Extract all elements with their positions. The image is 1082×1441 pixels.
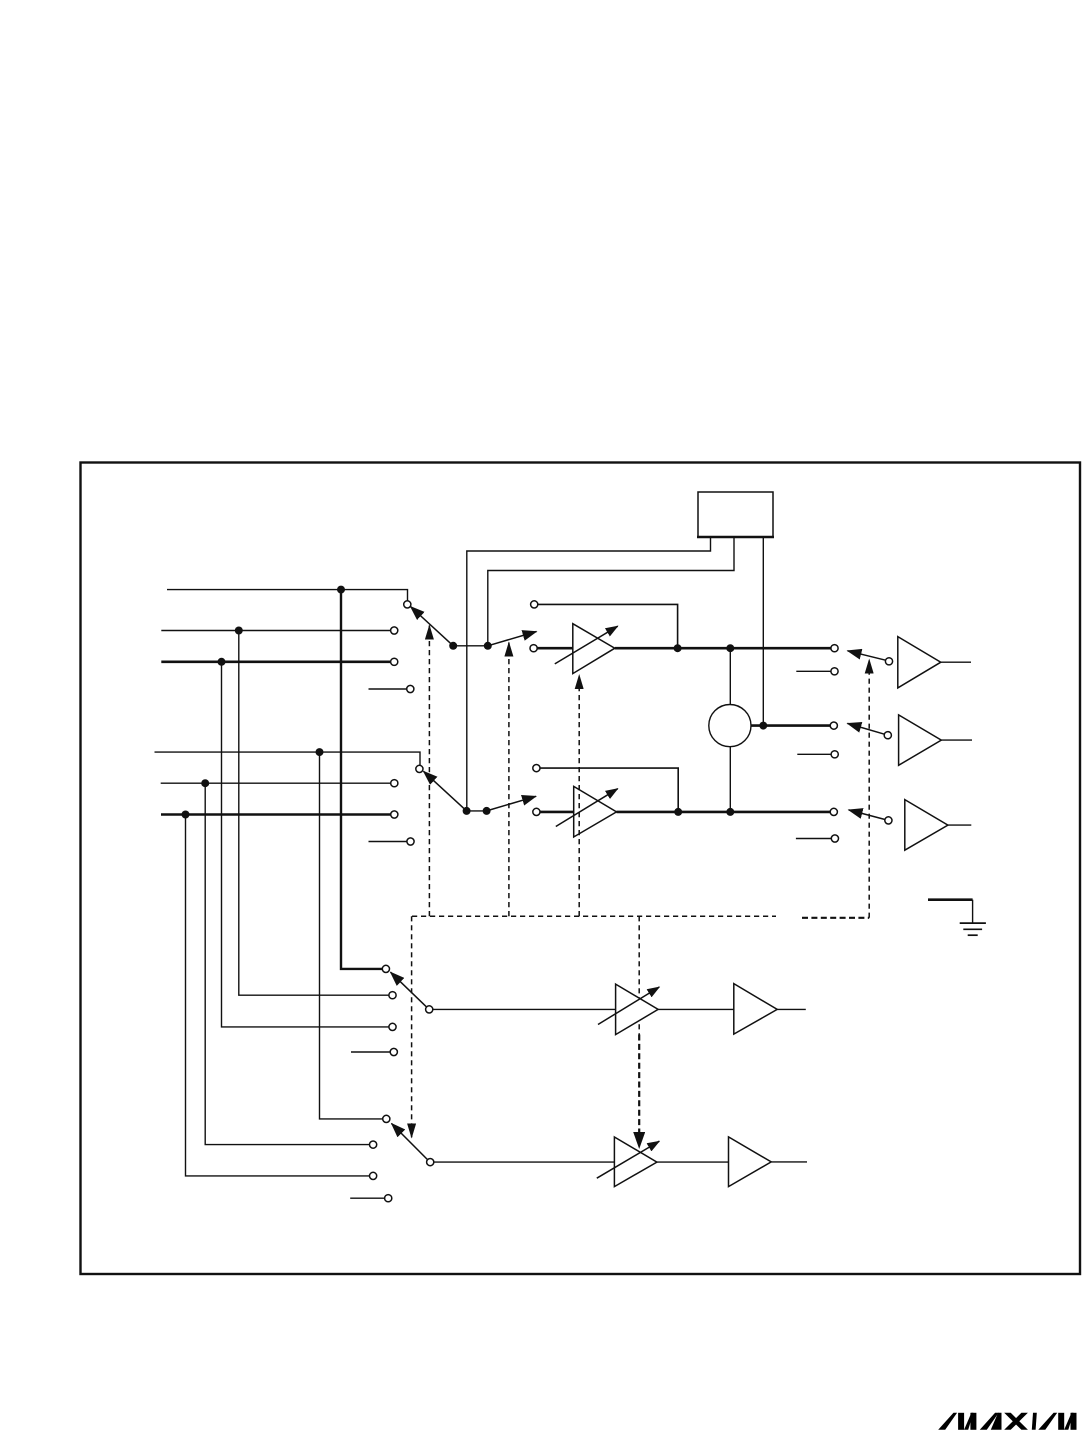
switch S3 contact 2: [389, 992, 396, 999]
switch S6 contact direct: [533, 808, 540, 815]
switch S4 contact 2: [370, 1141, 377, 1148]
switch S8 contact 2 stub: [797, 753, 831, 755]
wire tap B2 vertical: [205, 783, 369, 1144]
amplifier VGA3: [616, 984, 659, 1035]
wire box line L2: [488, 537, 734, 646]
wire dashed VGA gain control: [578, 675, 580, 916]
wire B2 output: [941, 739, 972, 741]
wire VGA4 to B5: [657, 1161, 729, 1163]
wire input A1: [167, 590, 408, 601]
amplifier VGA1: [573, 624, 615, 674]
switch S1 contact 1: [404, 601, 411, 608]
letter I: [1032, 1413, 1037, 1430]
wire box line L3: [762, 537, 764, 726]
summing node circle: [709, 705, 751, 747]
node VGA2 bypass join: [674, 808, 682, 816]
switch S4 contact 3: [370, 1172, 377, 1179]
wire summer output (thick): [751, 724, 830, 727]
switch S3 contact 3: [389, 1023, 396, 1030]
arrow VGA2 gain slash: [556, 789, 618, 827]
wire box line L1: [467, 537, 711, 811]
node S2 pivot: [483, 807, 491, 815]
switch S5 arm (VGA1 bypass select): [488, 632, 537, 646]
letter A: [980, 1413, 1002, 1430]
wire input B3 (thick): [161, 813, 391, 816]
switch S1 contact 3: [391, 658, 398, 665]
wire input A4 stub: [369, 688, 407, 690]
node A2 junction: [235, 627, 243, 635]
wire tap B1 vertical: [320, 752, 383, 1119]
wire input B4 stub: [369, 841, 407, 843]
switch S3 pole circle: [426, 1006, 433, 1013]
switch S3 contact 4 stub: [351, 1051, 390, 1053]
wire B3 output: [948, 824, 971, 826]
wire dashed output switch control: [868, 660, 870, 918]
arrow VGA3 gain slash: [598, 987, 659, 1025]
switch S7 contact from VGA1: [831, 645, 838, 652]
wire input A2: [161, 630, 390, 632]
switch S1 contact 4: [407, 685, 414, 692]
op-amp buffer B3: [905, 800, 948, 851]
wire VGA1 bypass: [538, 604, 678, 648]
switch S4 arm: [392, 1124, 428, 1160]
border frame: [81, 463, 1081, 1275]
switch S7 pole circle: [885, 658, 892, 665]
switch S9 arm: [849, 810, 885, 820]
wire VGA2 output (thick): [617, 811, 831, 814]
wire tap A1 vertical: [341, 590, 382, 969]
switch S3 contact 4: [390, 1048, 397, 1055]
wire S2 pole to pivot: [467, 810, 487, 812]
control box U1: [698, 492, 773, 537]
switch S4 pole circle: [427, 1159, 434, 1166]
node VGA1 bypass join: [674, 644, 682, 652]
switch S2 contact 3: [391, 811, 398, 818]
node B2 junction: [201, 779, 209, 787]
node S2 pole: [463, 807, 471, 815]
node summer bottom join: [726, 808, 734, 816]
wire B5 output: [771, 1161, 807, 1163]
wire B4 output: [777, 1008, 806, 1010]
wire S4 output: [434, 1161, 615, 1163]
switch S8 contact from summer: [830, 722, 837, 729]
wire summer top: [729, 648, 731, 704]
node summer feed: [726, 644, 734, 652]
wire input B2: [161, 782, 391, 784]
node summer output junction: [759, 722, 767, 730]
switch S1 arm: [411, 607, 454, 646]
wire VGA1 output (thick): [615, 647, 831, 650]
wire input B1: [155, 752, 421, 765]
switch S4 contact 4 stub: [350, 1197, 384, 1199]
wire B1 output: [941, 661, 971, 663]
letter M: [1038, 1413, 1076, 1430]
wire dashed bold bus right: [802, 917, 869, 919]
wire tap B3 vertical: [186, 815, 370, 1176]
op-amp buffer B5: [729, 1137, 772, 1187]
wire dashed VGA3 gain control: [638, 916, 640, 1034]
switch S6 arm (VGA2 bypass select): [487, 796, 536, 811]
op-amp buffer B2: [899, 715, 942, 765]
switch S3 contact 1: [382, 965, 389, 972]
switch S7 arm: [848, 651, 886, 660]
switch S2 contact 1: [416, 765, 423, 772]
letter M: [938, 1413, 976, 1430]
node S1 pivot: [484, 642, 492, 650]
node A1 junction: [337, 586, 345, 594]
switch S2 arm: [424, 771, 467, 811]
switch S3 arm: [391, 972, 427, 1007]
switch S4 contact 4: [385, 1195, 392, 1202]
wire summer bottom: [729, 747, 731, 812]
switch S6 contact bypass: [533, 765, 540, 772]
wire dashed control bus: [412, 915, 776, 917]
wire VGA2 bypass: [540, 768, 678, 812]
switch S2 contact 4: [407, 838, 414, 845]
wire dashed S3/S4 control: [411, 916, 413, 1137]
switch S8 arm: [847, 723, 884, 734]
switch S5 contact direct: [530, 645, 537, 652]
arrow VGA1 gain slash: [555, 626, 618, 664]
wire dashed S5 control: [508, 643, 510, 917]
wire input A3 (thick): [161, 660, 390, 663]
node B3 junction: [182, 811, 190, 819]
wire dashed bold VGA4 gain control: [638, 1035, 640, 1148]
wire S3 output: [433, 1008, 616, 1010]
wire S1 pole to pivot: [453, 645, 488, 647]
wire VGA3 to B4: [658, 1008, 734, 1010]
wire tap A2 vertical: [239, 631, 389, 996]
switch S9 contact from VGA2: [830, 808, 837, 815]
node A3 junction: [218, 658, 226, 666]
wire tap A3 vertical: [222, 662, 389, 1027]
switch S1 contact 2: [391, 627, 398, 634]
amplifier VGA4: [614, 1137, 657, 1187]
wire dashed S1 control: [428, 626, 430, 917]
switch S7 contact 2 stub: [796, 670, 831, 672]
MAXIM logo: [938, 1413, 1076, 1430]
wire VGA1 input (thick): [537, 647, 573, 650]
switch S8 pole circle: [884, 732, 891, 739]
amplifier VGA2: [574, 786, 617, 837]
wire VGA2 input (thick): [540, 811, 574, 814]
node B1 junction: [316, 748, 324, 756]
node S1 pole: [449, 642, 457, 650]
ground: [928, 900, 986, 936]
arrow VGA4 gain slash: [597, 1141, 660, 1178]
op-amp buffer B4: [734, 984, 777, 1035]
switch S4 contact 1: [383, 1115, 390, 1122]
switch S9 contact 2 stub: [796, 838, 831, 840]
op-amp buffer B1: [898, 637, 941, 688]
switch S2 contact 2: [391, 780, 398, 787]
switch S9 pole circle: [885, 817, 892, 824]
switch S5 contact bypass: [531, 601, 538, 608]
letter X: [1004, 1413, 1028, 1430]
